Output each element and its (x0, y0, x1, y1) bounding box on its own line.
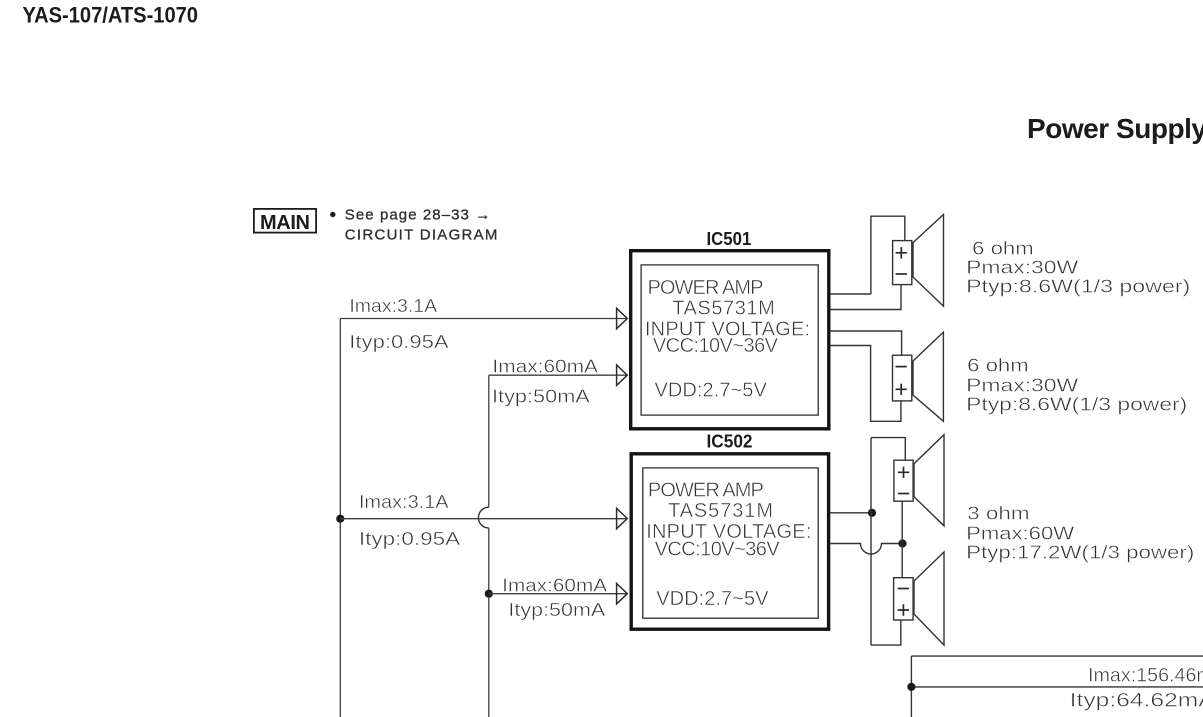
junction dot bottom-right (907, 683, 915, 691)
speaker SP1 cone (913, 215, 944, 307)
speaker SP1 terminal box (893, 241, 912, 285)
SP4 minus mark (898, 588, 909, 590)
SP3 minus mark (898, 493, 909, 495)
svg-text:POWER AMP: POWER AMP (648, 479, 764, 501)
bullet (330, 212, 335, 217)
IC502 inner box (643, 468, 818, 618)
svg-text:Ityp:50mA: Ityp:50mA (492, 387, 590, 407)
SP2 plus mark (896, 384, 907, 395)
SP3 plus mark (898, 467, 909, 478)
wire hop on trunk2 over W3 (478, 507, 488, 528)
svg-text:Power Supply: Power Supply (1027, 113, 1203, 144)
junction dot trunk1/W3 (336, 515, 344, 523)
svg-text:Pmax:30W: Pmax:30W (966, 375, 1078, 395)
svg-text:Ityp:50mA: Ityp:50mA (508, 600, 605, 620)
arrowhead into IC501 pin2 (617, 365, 628, 385)
svg-text:Ityp:0.95A: Ityp:0.95A (349, 332, 448, 352)
speaker SP3 terminal box (894, 460, 913, 501)
junction dot trunk2/W4 (485, 590, 493, 598)
junction dot node A (868, 509, 876, 517)
speaker SP3 cone (914, 435, 944, 526)
junction dot node B (898, 539, 906, 547)
wire W3 to IC502 pin1 (340, 518, 627, 520)
op-amp IC502 outer box (631, 454, 828, 629)
wire W2 to IC501 pin2 (489, 374, 627, 376)
svg-text:6 ohm: 6 ohm (972, 238, 1034, 258)
SP1 minus mark (896, 273, 907, 275)
svg-text:Imax:60mA: Imax:60mA (492, 356, 598, 376)
svg-text:TAS5731M: TAS5731M (668, 500, 773, 522)
svg-text:Imax:60mA: Imax:60mA (502, 576, 607, 596)
speaker SP4 cone (914, 552, 944, 645)
wire trunk1 vertical (339, 319, 341, 717)
wire trunk2 vertical upper (488, 375, 490, 507)
svg-text:TAS5731M: TAS5731M (672, 298, 775, 320)
svg-text:VDD:2.7~5V: VDD:2.7~5V (655, 379, 768, 401)
op-amp IC501 outer box (631, 251, 829, 429)
wire SP3 top feed (871, 438, 905, 461)
svg-text:VCC:10V~36V: VCC:10V~36V (653, 335, 779, 357)
SP2 minus mark (896, 366, 907, 368)
IC501 inner box (641, 265, 818, 415)
svg-text:Imax:3.1A: Imax:3.1A (359, 492, 449, 512)
svg-text:6 ohm: 6 ohm (967, 355, 1029, 375)
svg-text:VCC:10V~36V: VCC:10V~36V (655, 539, 781, 561)
arrowhead into IC502 pin2 (617, 584, 628, 604)
svg-text:Ityp:0.95A: Ityp:0.95A (359, 529, 460, 549)
svg-text:VDD:2.7~5V: VDD:2.7~5V (656, 588, 769, 610)
svg-text:See page 28–33 →: See page 28–33 → (345, 207, 490, 224)
svg-text:IC501: IC501 (707, 229, 752, 249)
svg-text:YAS-107/ATS-1070: YAS-107/ATS-1070 (23, 3, 199, 28)
wire IC501 out2- (830, 331, 902, 355)
SP4 plus mark (898, 604, 909, 615)
svg-text:3 ohm: 3 ohm (967, 503, 1030, 523)
svg-text:Ptyp:8.6W(1/3 power): Ptyp:8.6W(1/3 power) (966, 395, 1187, 415)
svg-text:Ptyp:17.2W(1/3 power): Ptyp:17.2W(1/3 power) (966, 543, 1194, 563)
svg-text:Pmax:60W: Pmax:60W (966, 523, 1074, 543)
wire trunk2 vertical lower (488, 528, 490, 717)
svg-text:CIRCUIT DIAGRAM: CIRCUIT DIAGRAM (345, 227, 498, 244)
speaker SP4 terminal box (894, 578, 914, 620)
MAIN box (254, 209, 316, 233)
svg-text:Pmax:30W: Pmax:30W (966, 258, 1078, 278)
wire IC501 out2+ down-loop (830, 346, 901, 422)
bottom-right block left edge (910, 656, 912, 717)
arrowhead into IC502 pin1 (617, 508, 628, 528)
wire IC502 out1 to node A (830, 512, 872, 514)
wire W1 to IC501 pin1 (340, 318, 627, 320)
wire W4 to IC502 pin2 (489, 593, 627, 595)
wire bottom-right (911, 686, 1203, 688)
wire SP3- to SP4- link (901, 501, 903, 578)
wire SP4 bottom feed (871, 620, 901, 645)
wire IC501 out1+ (830, 293, 871, 295)
wire SP3/SP4 plus bus vertical (870, 438, 872, 645)
svg-text:POWER AMP: POWER AMP (648, 277, 764, 299)
speaker SP2 cone (913, 332, 943, 421)
wire SP1 minus return (830, 285, 901, 310)
svg-text:Ityp:64.62mA: Ityp:64.62mA (1070, 690, 1203, 711)
SP1 plus mark (896, 247, 907, 258)
arrowhead into IC501 pin1 (617, 308, 628, 328)
svg-text:MAIN: MAIN (260, 212, 310, 234)
bottom-right block top edge (911, 655, 1203, 657)
svg-text:Imax:3.1A: Imax:3.1A (349, 296, 437, 316)
svg-text:Imax:156.46mA: Imax:156.46mA (1088, 666, 1203, 687)
svg-text:Ptyp:8.6W(1/3 power): Ptyp:8.6W(1/3 power) (966, 277, 1190, 297)
svg-text:IC502: IC502 (707, 432, 753, 452)
wire SP1 up-loop (871, 216, 905, 294)
wire IC502 out2 with hop (830, 544, 903, 555)
speaker SP2 terminal box (893, 355, 912, 401)
